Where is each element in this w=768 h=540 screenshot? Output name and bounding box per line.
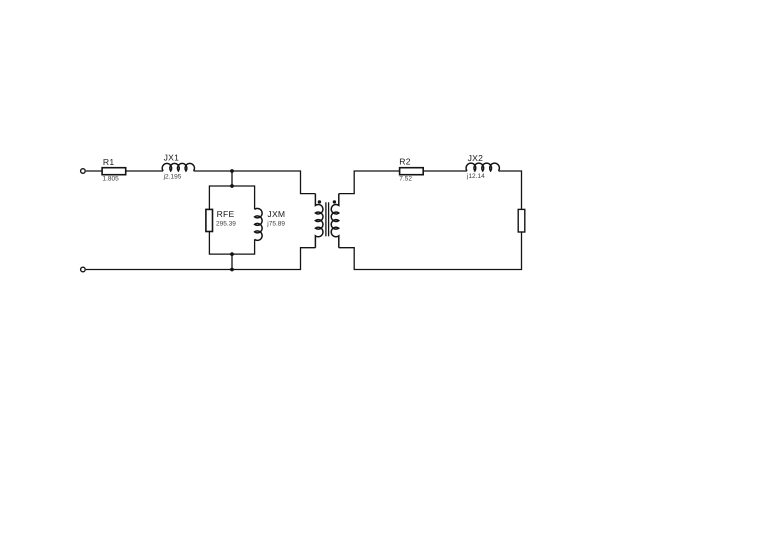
resistor R1 (102, 168, 126, 175)
transformer secondary phase dot (333, 200, 336, 203)
wire bottom: terminal to transformer primary bottom (86, 248, 316, 270)
wire R1 to JX1 (126, 170, 163, 172)
wire load to secondary bottom (339, 232, 522, 270)
resistor R2 (400, 168, 424, 175)
junction dot shunt bottom (230, 252, 234, 256)
svg-text:j12.14: j12.14 (466, 173, 485, 180)
svg-text:RFE: RFE (217, 209, 235, 219)
terminal top-left (81, 169, 86, 174)
svg-text:R2: R2 (399, 157, 411, 167)
inductor JX2 (466, 163, 499, 171)
node A junction dot (230, 169, 234, 173)
node B junction dot (230, 268, 234, 272)
wire secondary top to R2 (339, 171, 400, 194)
svg-text:295.39: 295.39 (216, 221, 236, 228)
transformer primary winding (315, 194, 323, 248)
wire JX1 to node A (194, 170, 232, 172)
svg-text:JX2: JX2 (468, 153, 484, 163)
transformer secondary winding (331, 194, 339, 248)
wire node A down to shunt branch (231, 171, 233, 186)
svg-text:R1: R1 (103, 157, 115, 167)
terminal bottom-left (81, 267, 86, 272)
wire node A to transformer primary top (232, 171, 315, 194)
svg-text:JXM: JXM (267, 209, 285, 219)
svg-text:7.52: 7.52 (399, 175, 412, 182)
svg-text:j75.89: j75.89 (266, 220, 285, 227)
load resistor (518, 209, 525, 232)
wire shunt bottom to node B (231, 254, 233, 269)
inductor JXM (255, 208, 263, 240)
svg-text:JX1: JX1 (164, 153, 180, 163)
wire JX2 to load (499, 171, 522, 209)
svg-text:1.805: 1.805 (103, 175, 120, 182)
transformer primary phase dot (318, 200, 321, 203)
shunt branch rectangle (209, 186, 254, 254)
resistor RFE (206, 209, 213, 231)
transformer core (325, 202, 327, 236)
svg-text:j2.195: j2.195 (163, 174, 182, 181)
wire terminal to R1 (86, 170, 102, 172)
inductor JX1 (162, 163, 194, 171)
wire R2 to JX2 (423, 170, 467, 172)
junction dot shunt top (230, 184, 234, 188)
